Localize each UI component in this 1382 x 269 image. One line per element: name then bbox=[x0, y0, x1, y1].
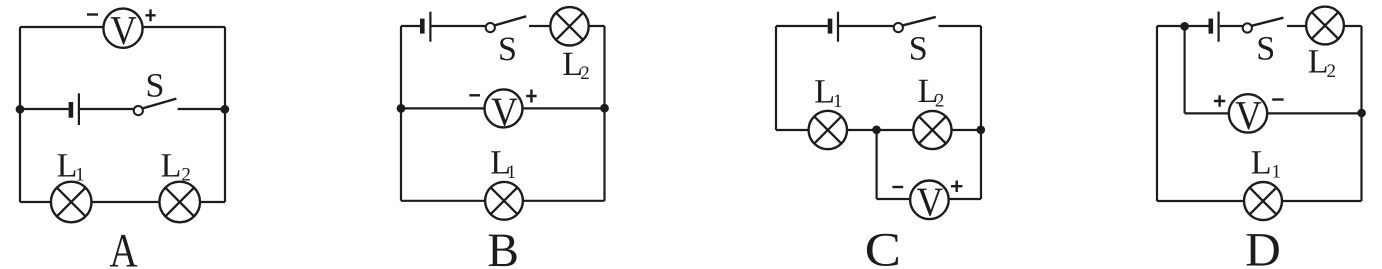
lamp L2 (circuit D) bbox=[1306, 7, 1344, 45]
wire: B bottom side bbox=[401, 200, 605, 202]
junction dot: A middle-right node bbox=[220, 105, 229, 114]
junction dot: D middle-right node bbox=[1357, 109, 1366, 118]
wire: B right side bbox=[603, 26, 605, 201]
wire: D left side bbox=[1156, 26, 1158, 201]
wire: D bottom side bbox=[1157, 200, 1362, 202]
label: plus sign of voltmeter D bbox=[1214, 95, 1225, 106]
svg-text:A: A bbox=[110, 224, 138, 269]
lamp L2 (circuit C) bbox=[913, 111, 951, 149]
wire: C voltmeter row bbox=[877, 198, 981, 200]
junction dot: C mid node between lamps bbox=[872, 126, 881, 135]
svg-text:V: V bbox=[1235, 92, 1262, 138]
wire: A bottom side bbox=[20, 201, 225, 203]
wire: C top row, left segment bbox=[776, 25, 828, 27]
wire: D right side bbox=[1360, 26, 1362, 201]
wire: C top row, switch-to-corner segment bbox=[939, 25, 982, 27]
switch S (circuit D) bbox=[1243, 18, 1284, 33]
svg-text:L1: L1 bbox=[1251, 144, 1281, 182]
wire: C middle row bbox=[776, 129, 981, 131]
battery (circuit C) bbox=[830, 12, 838, 42]
label: minus sign of voltmeter B bbox=[469, 94, 480, 96]
label: plus sign of voltmeter C bbox=[951, 181, 962, 193]
battery (circuit B) bbox=[422, 12, 430, 42]
svg-text:L1: L1 bbox=[57, 148, 85, 186]
lamp L2 (circuit B) bbox=[550, 7, 588, 45]
wire: B left side bbox=[400, 26, 402, 201]
lamp L2 (circuit A) bbox=[159, 182, 200, 223]
wire: D top row, left segment bbox=[1157, 25, 1209, 27]
wire: D top row, switch-to-corner segment bbox=[1287, 25, 1362, 27]
junction dot: B middle-left node bbox=[397, 104, 406, 113]
svg-text:L2: L2 bbox=[562, 46, 590, 84]
battery (circuit A) bbox=[71, 93, 79, 125]
wire: C left side bbox=[775, 26, 777, 130]
junction dot: B middle-right node bbox=[600, 104, 609, 113]
svg-text:S: S bbox=[1256, 31, 1275, 68]
wire: D voltmeter branch, vertical drop bbox=[1183, 26, 1185, 113]
wire: D middle row bbox=[1185, 112, 1362, 114]
wire: A top side bbox=[20, 26, 225, 28]
wire: C voltmeter branch, vertical drop bbox=[875, 130, 877, 199]
voltmeter V (circuit D) bbox=[1229, 92, 1267, 138]
svg-text:D: D bbox=[1245, 223, 1281, 269]
wire: A right side bbox=[224, 27, 226, 202]
lamp L1 (circuit B) bbox=[485, 182, 523, 220]
lamp L1 (circuit C) bbox=[809, 111, 847, 149]
wire: A middle row, battery-to-switch segment bbox=[80, 108, 134, 110]
svg-text:C: C bbox=[865, 223, 901, 269]
wire: B top row, battery-to-switch segment bbox=[432, 25, 486, 27]
label: minus sign of voltmeter A bbox=[87, 13, 98, 15]
svg-text:V: V bbox=[110, 7, 137, 53]
label: minus sign of voltmeter D bbox=[1272, 98, 1283, 100]
battery (circuit D) bbox=[1211, 12, 1219, 42]
wire: A left side bbox=[19, 27, 21, 202]
wire: B top row, switch-to-corner segment bbox=[529, 25, 605, 27]
wire: A middle row, switch-to-right segment bbox=[178, 108, 225, 110]
svg-text:L1: L1 bbox=[490, 144, 516, 183]
switch S (circuit C) bbox=[894, 17, 936, 32]
svg-text:S: S bbox=[146, 68, 165, 105]
svg-text:L2: L2 bbox=[161, 148, 191, 186]
voltmeter V (circuit C) bbox=[910, 179, 949, 225]
lamp L1 (circuit A) bbox=[51, 182, 92, 223]
junction dot: A middle-left node bbox=[16, 105, 25, 114]
wire: C right side bbox=[980, 26, 982, 199]
junction dot: C middle-right node bbox=[977, 126, 986, 135]
label: plus sign of voltmeter A bbox=[145, 9, 155, 21]
voltmeter V (circuit B) bbox=[485, 89, 523, 135]
lamp L1 (circuit D) bbox=[1244, 182, 1282, 220]
label: plus sign of voltmeter B bbox=[526, 90, 536, 103]
wire: B top row, left segment bbox=[401, 25, 420, 27]
switch S (circuit A) bbox=[134, 99, 177, 116]
svg-text:L2: L2 bbox=[1308, 43, 1336, 82]
wire: A middle row, battery left segment bbox=[20, 108, 69, 110]
svg-text:V: V bbox=[491, 89, 518, 135]
wire: B middle row bbox=[401, 107, 605, 109]
svg-text:S: S bbox=[498, 31, 517, 68]
wire: C top row, battery-to-switch segment bbox=[839, 25, 894, 27]
switch S (circuit B) bbox=[486, 16, 527, 32]
label: minus sign of voltmeter C bbox=[892, 186, 903, 188]
wire: D top row, battery-to-switch segment bbox=[1220, 25, 1243, 27]
svg-text:B: B bbox=[487, 224, 519, 269]
svg-text:L1: L1 bbox=[814, 74, 842, 113]
svg-text:L2: L2 bbox=[918, 73, 945, 112]
voltmeter V (circuit A) bbox=[103, 7, 142, 53]
svg-text:S: S bbox=[909, 31, 928, 68]
junction dot: D top node bbox=[1180, 22, 1189, 31]
svg-text:V: V bbox=[917, 179, 944, 225]
